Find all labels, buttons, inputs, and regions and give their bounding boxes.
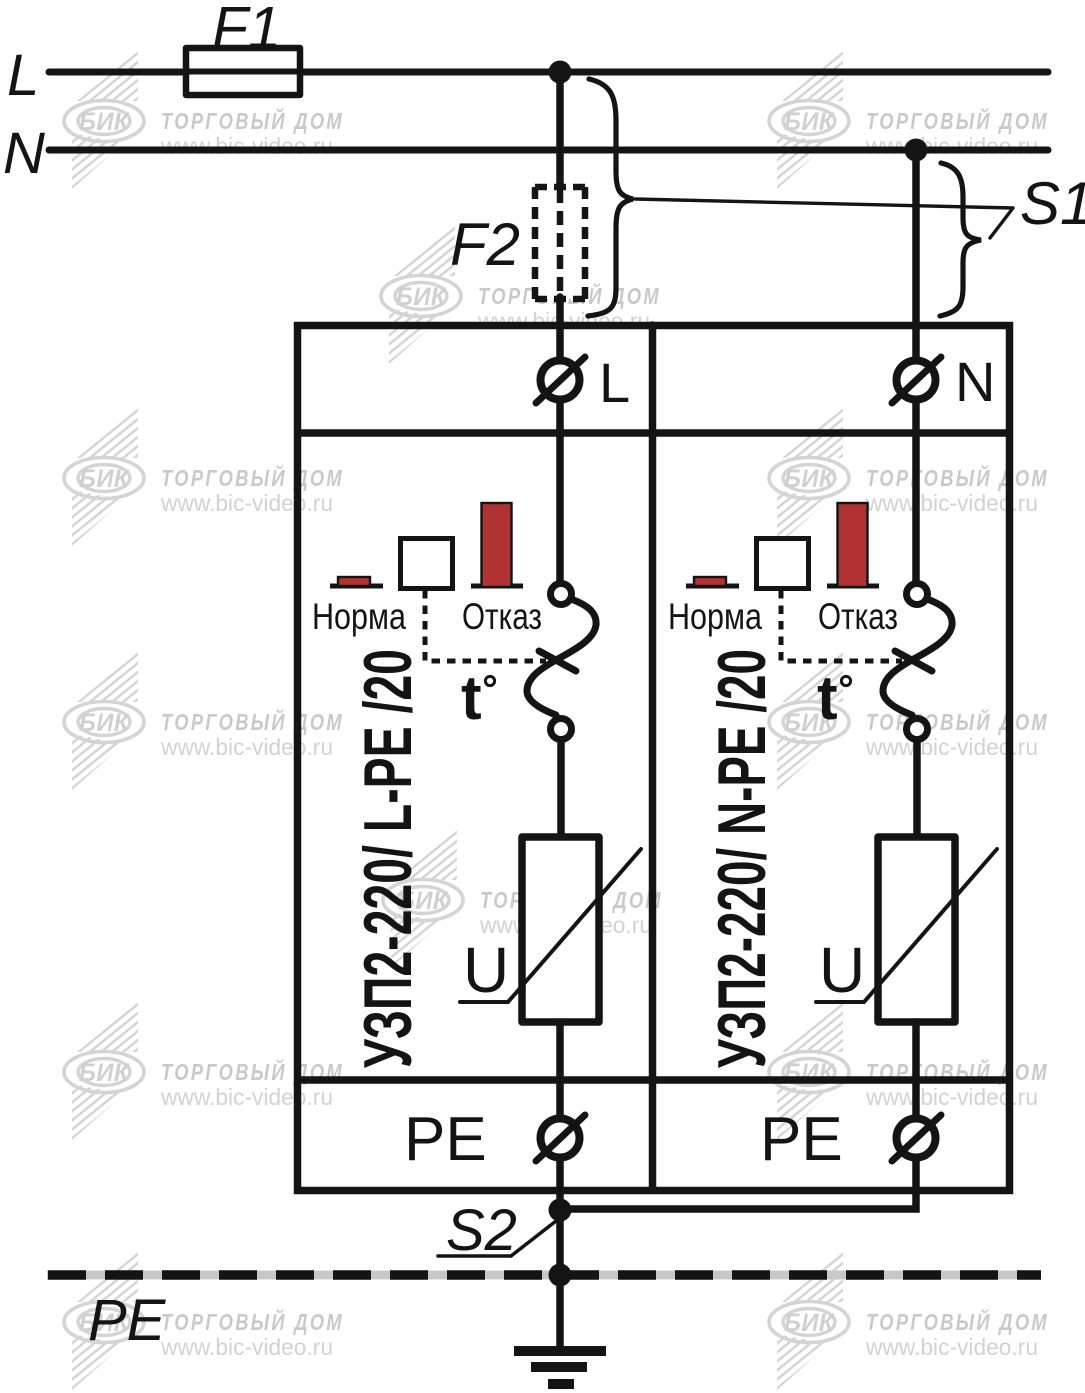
svg-text:N: N [955,350,995,413]
node S2 junction dot [549,1199,572,1222]
switch contact top [551,584,572,605]
svg-text:N: N [3,121,45,186]
dashed indicator link [425,590,546,661]
varistor diagonal [816,849,997,1002]
svg-text:УЗП2-220/ N-PE /20: УЗП2-220/ N-PE /20 [704,649,780,1068]
svg-text:PE: PE [760,1105,843,1174]
indicator window (white square) [401,539,453,589]
module divider [649,325,657,1190]
svg-text:U: U [819,934,865,1006]
wire F2 to box [556,297,564,362]
svg-text:S1: S1 [1020,170,1085,237]
node PE junction dot [549,1264,572,1287]
svg-text:L: L [599,351,630,414]
svg-text:Отказ: Отказ [818,596,898,637]
svg-text:U: U [463,934,509,1006]
switch contact bottom [551,719,572,740]
indicator bar Otkaz (tall red) [838,503,868,587]
svg-text:L: L [7,43,39,108]
wire from N junction down [912,150,920,362]
varistor diagonal [460,849,641,1002]
terminal N (screw) [897,361,936,400]
svg-text:PE: PE [404,1105,487,1174]
indicator baseline right [827,584,879,589]
wire L bus [49,69,1048,76]
indicator bar Otkaz (tall red) [482,503,512,587]
indicator window (white square) [757,539,809,589]
svg-text:УЗП2-220/ L-PE /20: УЗП2-220/ L-PE /20 [350,649,426,1068]
fuse F1 [186,48,300,95]
terminal L (screw) [541,361,580,400]
svg-text:S2: S2 [446,1198,517,1263]
thermal disconnect curve [883,599,952,715]
terminal row divider [298,429,1009,437]
indicator bar Norma (small red) [694,577,726,586]
S1 right brace [940,163,981,316]
svg-text:F2: F2 [450,211,520,278]
PE bus gray underlay [47,1271,1041,1280]
wire to ground [556,1275,564,1351]
switch contact top [907,584,928,605]
svg-text:PE: PE [88,1288,167,1353]
dashed indicator link [781,590,902,661]
switch contact bottom [907,719,928,740]
S1 left brace [588,79,633,316]
svg-text:Норма: Норма [668,596,762,637]
terminal PE left (screw) [541,1119,580,1158]
wire varistor to PE terminal [556,1022,564,1118]
wire PE terminal down [556,1158,564,1277]
wire N bus [49,147,1048,154]
PE bus dashed line [48,1270,1041,1280]
varistor RU1 body [522,837,599,1022]
PE row divider [298,1076,1009,1084]
device outer box [298,326,1010,1191]
indicator baseline right [471,584,523,589]
indicator baseline left [330,584,383,589]
S1 pointer line [635,199,1013,238]
thermal disconnect curve [527,599,596,715]
wire L terminal to switch [556,402,564,584]
node junction L dot [549,61,572,84]
svg-text:Норма: Норма [312,596,406,637]
wire varistor to PE terminal [912,1022,920,1118]
node junction N dot [905,139,928,162]
svg-text:F1: F1 [212,0,281,61]
svg-text:t: t [461,664,482,733]
svg-text:Отказ: Отказ [462,596,542,637]
S2 pointer line [511,1221,556,1256]
wire from L junction down [556,72,564,190]
ground symbol [514,1346,606,1356]
svg-text:t: t [817,664,838,733]
fuse F2 (dashed) [535,187,585,299]
terminal PE right (screw) [897,1119,936,1158]
indicator bar Norma (small red) [338,577,370,586]
wire N terminal to switch [912,402,920,584]
wire PE terminal to S2 junction [560,1158,916,1209]
varistor RU2 body [878,837,955,1022]
indicator baseline left [686,584,739,589]
wire switch to varistor [913,741,921,840]
wire switch to varistor [557,741,565,840]
